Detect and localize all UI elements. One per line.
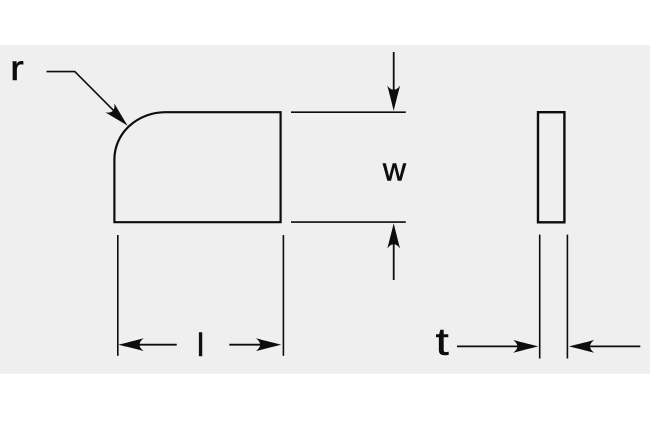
l dimension left shaft xyxy=(137,344,177,346)
l dimension left arrowhead (points left) xyxy=(118,338,143,351)
t dimension right arrowhead (points left) xyxy=(569,340,594,353)
leader line for r xyxy=(47,72,120,116)
l right extension line xyxy=(282,235,284,356)
t dimension left shaft xyxy=(457,345,522,347)
w dimension upper shaft xyxy=(393,52,395,91)
w dimension lower shaft xyxy=(393,244,395,280)
svg-text:l: l xyxy=(197,327,204,363)
key side view rectangle xyxy=(538,112,564,222)
w dimension upper arrowhead (points down) xyxy=(387,86,400,111)
svg-text:w: w xyxy=(382,151,407,187)
svg-text:t: t xyxy=(436,322,450,364)
svg-text:r: r xyxy=(10,49,24,88)
w dimension lower arrowhead (points up) xyxy=(387,223,400,248)
drawing background band xyxy=(0,45,650,374)
t dimension left arrowhead (points right) xyxy=(513,340,538,353)
key plan view outline (rounded-end key) xyxy=(114,112,280,222)
l dimension right shaft xyxy=(229,344,262,346)
leader arrowhead for r xyxy=(105,103,132,130)
l left extension line xyxy=(117,235,119,356)
t left extension line xyxy=(539,235,541,359)
t right extension line xyxy=(566,235,568,359)
w top extension line xyxy=(291,111,406,113)
t dimension right shaft xyxy=(585,345,640,347)
l dimension right arrowhead (points right) xyxy=(256,338,281,351)
w bottom extension line xyxy=(291,221,406,223)
